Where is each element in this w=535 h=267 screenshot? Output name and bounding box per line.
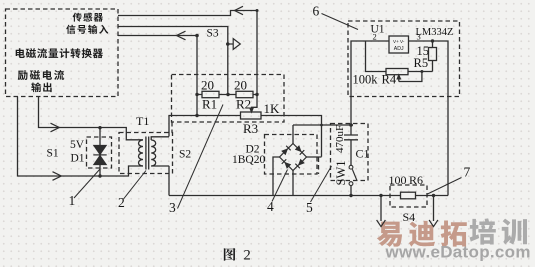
svg-text:20: 20 xyxy=(234,77,247,92)
svg-text:R1: R1 xyxy=(202,97,217,112)
svg-text:470uF: 470uF xyxy=(334,125,346,153)
svg-text:3: 3 xyxy=(169,200,176,215)
svg-text:5V: 5V xyxy=(70,139,85,151)
svg-text:7: 7 xyxy=(464,165,471,180)
svg-text:LM334Z: LM334Z xyxy=(416,27,454,38)
svg-text:www.eDatop.com: www.eDatop.com xyxy=(385,243,531,262)
svg-text:D1: D1 xyxy=(71,153,85,165)
svg-text:S4: S4 xyxy=(403,210,416,224)
svg-text:S3: S3 xyxy=(207,28,219,40)
svg-text:V+ V-: V+ V- xyxy=(393,39,405,44)
svg-text:R4: R4 xyxy=(382,72,397,86)
svg-text:20: 20 xyxy=(201,77,214,92)
svg-text:2: 2 xyxy=(244,248,251,264)
svg-text:S1: S1 xyxy=(47,148,59,160)
svg-text:3: 3 xyxy=(417,32,421,42)
svg-text:100k: 100k xyxy=(353,72,379,86)
svg-text:T1: T1 xyxy=(136,114,149,128)
svg-text:SW1: SW1 xyxy=(334,161,348,186)
svg-text:R5: R5 xyxy=(414,56,429,70)
svg-text:2: 2 xyxy=(373,32,377,42)
svg-text:R3: R3 xyxy=(243,121,258,136)
svg-text:2: 2 xyxy=(118,195,125,210)
svg-text:S2: S2 xyxy=(179,149,191,161)
svg-text:1: 1 xyxy=(69,193,76,208)
svg-text:R6: R6 xyxy=(409,173,423,187)
svg-text:4: 4 xyxy=(267,199,274,214)
svg-text:C1: C1 xyxy=(356,147,370,161)
svg-text:ADJ: ADJ xyxy=(394,46,404,52)
svg-text:R2: R2 xyxy=(236,97,251,112)
svg-text:1K: 1K xyxy=(264,101,281,116)
svg-text:100: 100 xyxy=(389,173,407,187)
svg-text:1BQ20: 1BQ20 xyxy=(232,154,265,166)
svg-text:5: 5 xyxy=(306,200,313,215)
svg-text:6: 6 xyxy=(313,4,320,19)
